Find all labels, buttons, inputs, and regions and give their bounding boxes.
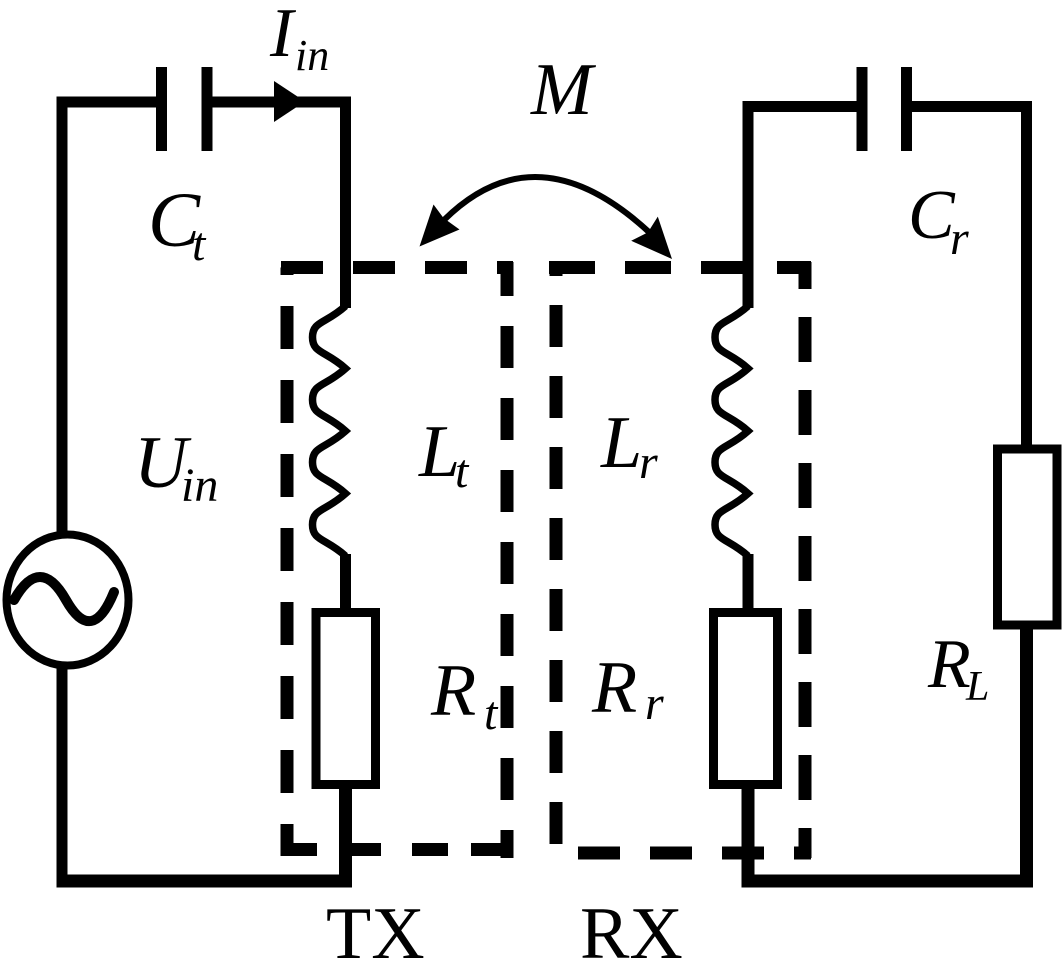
svg-text:L: L [600,402,642,484]
svg-text:r: r [639,436,658,489]
svg-text:L: L [965,664,989,710]
M arc right arrowhead [631,217,672,259]
svg-text:C: C [908,177,956,254]
RX dashed box right edge [799,262,812,858]
wire: Lt bottom to Rt top [340,554,351,612]
AC voltage source Uin (circle) [7,535,129,666]
wire: Rr bottom, bottom-right return, up right rail to RL [748,629,1027,881]
svg-text:TX: TX [326,893,425,975]
resistor Rr [714,613,778,785]
capacitor Ct left plate [156,67,167,151]
TX dashed box bottom edge [281,843,513,856]
current direction arrow Iin [274,81,305,122]
RX dashed box bottom edge [549,847,811,860]
TX dashed box right edge [501,262,514,858]
svg-text:in: in [295,31,329,80]
TX dashed box left edge [281,268,294,857]
wire: Ct right plate to TX branch corner, down to Lt [212,102,346,308]
wire: Lr bottom to Rr top [743,554,754,612]
load resistor RL [998,449,1058,625]
capacitor Cr right plate [901,67,912,151]
TX dashed box top edge [281,261,513,274]
svg-text:t: t [192,218,207,271]
svg-text:R: R [591,647,637,729]
RX dashed box left edge [550,268,563,859]
inductor Lr coil [715,306,748,556]
svg-text:r: r [950,212,969,265]
svg-text:r: r [645,677,664,730]
svg-text:L: L [418,411,460,493]
svg-text:t: t [455,445,470,498]
wire: RX branch vertical and top-right run to Cr [748,107,857,309]
wire: Cr right plate to right rail, down to RL [912,107,1027,450]
wire: Rt bottom, bottom-left return to source Uin [57,786,346,881]
mutual inductance M arc [444,177,650,233]
svg-text:RX: RX [580,893,683,975]
M arc left arrowhead [420,205,460,247]
resistor Rt [316,613,376,785]
capacitor Ct right plate [202,67,213,151]
wire: source Uin top lead, left rail and top-left run to Ct [62,102,157,887]
svg-text:M: M [530,49,597,131]
AC voltage source Uin sine symbol [14,577,114,621]
svg-text:in: in [181,459,218,512]
RX dashed box top edge [549,261,811,274]
svg-text:R: R [430,650,476,732]
svg-text:t: t [484,687,499,740]
svg-text:I: I [269,0,297,72]
svg-text:R: R [927,626,971,703]
inductor Lt coil [313,306,346,556]
capacitor Cr left plate [857,67,868,151]
